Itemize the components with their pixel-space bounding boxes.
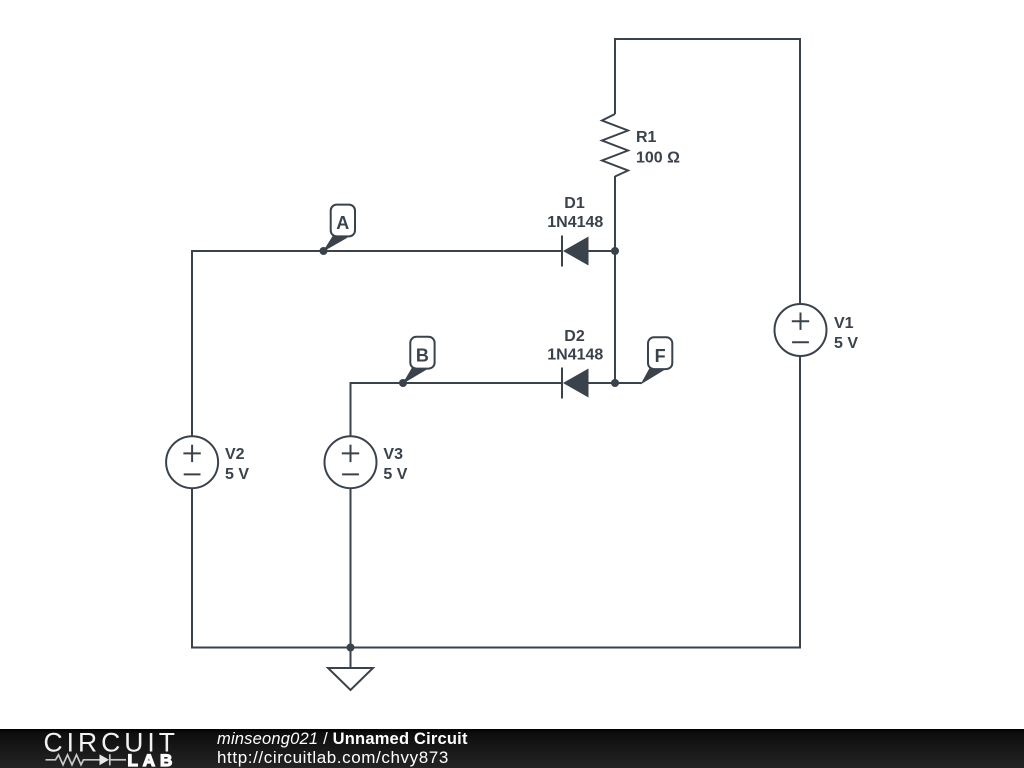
svg-text:V2: V2: [225, 446, 245, 463]
wire node B horizontal: [351, 382, 563, 384]
label node F letter: [655, 346, 666, 366]
label V3 value: [383, 446, 407, 483]
svg-text:R1: R1: [636, 129, 657, 146]
svg-text:D2: D2: [564, 328, 585, 345]
svg-text:F: F: [655, 346, 666, 366]
label R1 value: [636, 129, 680, 167]
svg-text:1N4148: 1N4148: [547, 214, 603, 231]
label node B letter: [416, 345, 429, 365]
junction dot node B: [399, 379, 407, 387]
wire node A horizontal: [192, 250, 562, 252]
wire mid vertical D1 junction to D2 junction: [614, 251, 616, 383]
voltage source V3: [325, 436, 377, 488]
wire node B vertical (to V3): [350, 382, 352, 436]
junction dot D2/F: [611, 379, 619, 387]
diode D1 cathode bar: [561, 236, 563, 267]
voltage source V1: [775, 304, 827, 356]
junction dot node A: [320, 247, 328, 255]
wire V3 bottom: [350, 488, 352, 648]
wire D1 anode to junction: [588, 250, 615, 252]
wire D2 anode to junction: [588, 382, 615, 384]
CircuitLab logo resistor-diode glyph: [46, 754, 127, 765]
label V1 value: [834, 315, 858, 352]
svg-text:D1: D1: [564, 195, 585, 212]
resistor R1: [602, 114, 628, 177]
wire left lower (V2 to bottom): [191, 488, 193, 649]
diode D2 cathode bar: [561, 368, 563, 399]
node B flag: [402, 337, 434, 384]
svg-text:5 V: 5 V: [834, 335, 858, 352]
ground: [328, 648, 373, 691]
svg-text:100 Ω: 100 Ω: [636, 149, 680, 166]
voltage source V2: [166, 436, 218, 488]
junction dot D1/R1: [611, 247, 619, 255]
svg-text:A: A: [336, 213, 349, 233]
wire node F stub: [615, 382, 642, 384]
svg-text:5 V: 5 V: [225, 466, 249, 483]
wire top horizontal: [615, 38, 800, 40]
diode D2 triangle: [563, 369, 589, 398]
node A flag: [323, 205, 356, 252]
wire R1 top vertical: [614, 38, 616, 114]
svg-text:LAB: LAB: [128, 751, 178, 768]
wire right lower (V1 to bottom): [799, 356, 801, 649]
diode D1 triangle: [563, 237, 589, 266]
footer author / title text: [217, 730, 468, 749]
wire left upper (node A to V2): [191, 250, 193, 436]
label D1 value: [547, 195, 603, 231]
svg-text:V1: V1: [834, 315, 854, 332]
junction dot ground node: [347, 644, 355, 652]
CircuitLab logo wordmark CIRCUIT: [44, 727, 179, 757]
node F flag: [641, 337, 673, 384]
svg-text:B: B: [416, 345, 429, 365]
svg-text:5 V: 5 V: [383, 466, 407, 483]
svg-text:1N4148: 1N4148: [547, 347, 603, 364]
label D2 value: [547, 328, 603, 364]
label V2 value: [225, 446, 249, 483]
footer bar: [0, 729, 1024, 768]
label node A letter: [336, 213, 349, 233]
wire bottom horizontal: [192, 647, 800, 649]
CircuitLab logo wordmark LAB: [128, 751, 178, 768]
wire right upper (to V1): [799, 38, 801, 304]
svg-text:V3: V3: [383, 446, 403, 463]
wire R1 bottom to D1 junction: [614, 176, 616, 251]
footer url text: [217, 748, 449, 768]
